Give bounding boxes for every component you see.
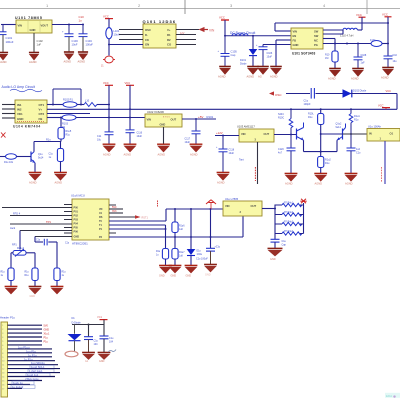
- svg-text:C1u: C1u: [65, 243, 70, 245]
- svg-text:GND: GND: [44, 329, 50, 332]
- svg-text:VIN: VIN: [147, 118, 152, 122]
- svg-text:TP1: TP1: [46, 220, 51, 224]
- wire mcu pinR3 reset: [109, 216, 135, 218]
- ground AGND QB: [29, 172, 42, 184]
- svg-text:L102 4.7uH: L102 4.7uH: [340, 34, 354, 38]
- svg-text:GND: GND: [171, 275, 177, 278]
- wire con pin16: [8, 383, 31, 385]
- ground AGND under C103: [64, 52, 75, 64]
- svg-text:VCC: VCC: [356, 13, 362, 17]
- diode column D1: [190, 209, 192, 249]
- svg-text:AGND: AGND: [55, 181, 63, 185]
- resistor RD1: [8, 268, 14, 281]
- svg-text:C1u 100uF: C1u 100uF: [196, 258, 208, 261]
- earth ground ellipse: [65, 351, 78, 357]
- inductor L103 zigzag: [84, 103, 97, 107]
- wire con pin12: [8, 368, 61, 370]
- resistor RN2: [275, 213, 304, 216]
- wire drop to trimmer: [19, 231, 21, 250]
- left pullup bus: [274, 205, 276, 240]
- svg-text:1N4u: 1N4u: [197, 254, 203, 256]
- wire to jack symbol: [108, 45, 110, 56]
- svg-text:AGND: AGND: [158, 153, 166, 157]
- right pullup bus: [303, 203, 305, 234]
- wire U101 pin5 sw: [323, 29, 343, 31]
- capacitor C105: [221, 36, 230, 66]
- ground stem of U101a: [33, 33, 35, 52]
- svg-text:15: 15: [2, 381, 4, 383]
- svg-text:+C1u: +C1u: [215, 247, 221, 249]
- wire U102 gnd: [163, 127, 165, 144]
- svg-text:GN: GN: [145, 43, 149, 47]
- svg-text:R1u: R1u: [325, 162, 330, 165]
- wire Q1 emitter: [303, 140, 305, 151]
- svg-text:10uF: 10uF: [267, 55, 273, 58]
- wire con pin15: [8, 380, 43, 382]
- svg-text:AGND: AGND: [0, 60, 7, 64]
- svg-text:AGND: AGND: [218, 75, 226, 79]
- resistor RD2: [32, 268, 38, 281]
- wire con pin4: [8, 336, 43, 338]
- svg-text:U103 AMS1117: U103 AMS1117: [237, 125, 255, 129]
- svg-text:R1u: R1u: [1, 272, 6, 274]
- ground AGND left edge: [0, 53, 8, 65]
- net label vertical red mcu: [157, 201, 159, 207]
- svg-text:R1u7: R1u7: [179, 252, 185, 254]
- svg-text:GND: GND: [186, 275, 192, 278]
- ground AGND RD3: [51, 286, 64, 294]
- wire con pin14: [8, 376, 56, 378]
- svg-text:AGND: AGND: [103, 153, 111, 157]
- wire con pin11: [8, 364, 59, 366]
- svg-text:OSC: OSC: [275, 93, 282, 97]
- ground AGND col2: [124, 144, 137, 156]
- svg-text:5: 5: [2, 341, 3, 343]
- svg-text:VIN: VIN: [209, 28, 215, 32]
- svg-text:2: 2: [2, 329, 3, 331]
- watermark: [385, 393, 400, 398]
- svg-text:AGND: AGND: [351, 77, 359, 81]
- wire trimmer left leg: [11, 252, 13, 254]
- svg-text:R1u 10k: R1u 10k: [4, 161, 14, 164]
- svg-text:GND: GND: [293, 43, 299, 47]
- transistor Q1: [297, 123, 304, 141]
- resistor RN1: [275, 203, 304, 206]
- svg-text:P06: P06: [74, 231, 79, 234]
- svg-text:7: 7: [2, 349, 3, 351]
- sheet border top line: [0, 8, 400, 10]
- svg-text:R?D 4: R?D 4: [13, 212, 21, 215]
- wire con pin8: [8, 352, 53, 354]
- wire mcu pinR1: [109, 208, 123, 210]
- resistor RA: [172, 222, 178, 233]
- ground AGND U102: [157, 144, 170, 156]
- svg-text:AGND: AGND: [190, 153, 198, 157]
- svg-text:AGND: AGND: [328, 77, 336, 81]
- wire cross couple: [321, 133, 343, 135]
- svg-text:AGND: AGND: [78, 60, 86, 64]
- cap column C122: [210, 209, 212, 248]
- wire drop pinL5: [34, 237, 36, 243]
- svg-text:1uF: 1uF: [361, 62, 366, 65]
- svg-text:FB: FB: [293, 39, 297, 43]
- wire mcu pinL5: [35, 236, 72, 238]
- svg-text:5V0: 5V0: [112, 206, 117, 209]
- svg-text:P01: P01: [74, 211, 79, 214]
- wire con pin2: [8, 328, 43, 330]
- capacitor C109: [384, 56, 393, 67]
- svg-text:10: 10: [2, 361, 4, 363]
- ground AGND under C108: [351, 69, 364, 81]
- svg-text:P1u: P1u: [44, 340, 49, 343]
- svg-text:12: 12: [2, 369, 4, 371]
- svg-text:U101 78M05: U101 78M05: [15, 16, 43, 20]
- svg-text:R1u: R1u: [62, 272, 67, 274]
- wire U103 gnd tab: [257, 142, 259, 184]
- wire Q2 emitter: [336, 140, 338, 151]
- svg-text:10uF: 10uF: [72, 43, 78, 47]
- svg-text:L101: L101: [114, 29, 120, 33]
- svg-text:13: 13: [2, 373, 4, 375]
- svg-text:O1: O1: [390, 132, 394, 136]
- svg-text:10uF: 10uF: [185, 141, 191, 144]
- fuse F101: [371, 41, 382, 47]
- svg-text:8 7 6 5: 8 7 6 5: [163, 117, 170, 119]
- node R101 top: [320, 108, 322, 110]
- diode D102: [343, 89, 352, 98]
- capacitor C120: [287, 135, 296, 174]
- svg-text:AGND: AGND: [345, 182, 353, 186]
- power jack J101: [103, 56, 115, 63]
- wire emitter join: [304, 151, 338, 153]
- svg-text:9u14: 9u14: [38, 157, 44, 160]
- IC U104 opamp: [15, 100, 47, 123]
- svg-text:104: 104: [109, 341, 114, 344]
- ground AGND RD2: [29, 286, 42, 298]
- power VCC col1: [103, 81, 113, 132]
- svg-text:VIN: VIN: [18, 24, 23, 28]
- svg-text:5V0: 5V0: [44, 325, 49, 328]
- svg-text:OUT: OUT: [264, 132, 270, 136]
- svg-text:SW: SW: [314, 30, 319, 34]
- wire Q101 pin6 right: [176, 34, 196, 36]
- svg-text:AGND: AGND: [29, 60, 37, 64]
- svg-text:10uH: 10uH: [114, 33, 120, 37]
- svg-text:VCC: VCC: [386, 89, 392, 93]
- wire U103 out to Q1: [274, 134, 297, 136]
- svg-text:GND: GND: [160, 123, 166, 127]
- resistor RD3: [54, 268, 60, 281]
- wire Q101 pin3 left: [119, 39, 143, 41]
- svg-text:V+: V+: [167, 28, 171, 32]
- svg-text:10u: 10u: [393, 60, 398, 63]
- svg-text:8: 8: [2, 353, 3, 355]
- wire U101 pin3 to gnd: [276, 39, 291, 41]
- diode D103: [187, 249, 196, 255]
- capacitor C116: [126, 130, 135, 144]
- svg-text:AGND: AGND: [64, 60, 72, 64]
- svg-text:SW: SW: [314, 34, 319, 38]
- svg-text:R1u: R1u: [25, 272, 30, 274]
- svg-text:AGND: AGND: [124, 153, 132, 157]
- svg-text:OT1: OT1: [39, 103, 45, 107]
- wire U101 pin7: [323, 38, 335, 40]
- svg-text:U1u6 MCU: U1u6 MCU: [71, 194, 85, 198]
- svg-text:100pF: 100pF: [304, 103, 312, 106]
- capacitor C126 series: [44, 239, 47, 246]
- svg-text:C10: C10: [393, 54, 398, 57]
- svg-text:3: 3: [2, 333, 3, 335]
- wire mcu pinL3: [10, 223, 72, 225]
- svg-text:R10C: R10C: [278, 117, 284, 120]
- node L101 out: [108, 44, 110, 46]
- resistor R101: [308, 109, 324, 151]
- svg-text:R1u: R1u: [25, 275, 30, 277]
- svg-text:GND: GND: [30, 295, 36, 298]
- wire input to U101a: [1, 24, 16, 26]
- svg-text:AGND: AGND: [285, 182, 293, 186]
- wire Q101 pin4 left: [109, 44, 143, 46]
- wire U102 out +5V: [182, 118, 216, 120]
- capacitor C123: [271, 239, 280, 248]
- wire main rail: [47, 108, 397, 110]
- IC U101 SGT3403: [291, 28, 323, 49]
- svg-text:3V3: 3V3: [112, 210, 117, 213]
- svg-text:DC Power Circuit: DC Power Circuit: [230, 31, 255, 35]
- svg-text:RS: RS: [99, 216, 103, 219]
- resistor R204 zigzag: [289, 109, 293, 134]
- resistor RN3: [275, 222, 304, 225]
- ground AGND C121: [345, 173, 358, 185]
- svg-text:EDA: EDA: [386, 394, 392, 398]
- svg-text:GND: GND: [159, 275, 165, 278]
- svg-text:D1u: D1u: [197, 251, 202, 253]
- svg-text:R1u: R1u: [46, 138, 51, 141]
- svg-text:Cap: Cap: [282, 244, 287, 247]
- connector P101: [1, 322, 8, 397]
- svg-text:Jack: Jack: [10, 227, 16, 230]
- deco squiggle: [108, 350, 116, 353]
- svg-text:R2: R2: [167, 38, 171, 42]
- divider column RA: [174, 209, 176, 222]
- resistor RB oval: [0, 156, 6, 158]
- power VCC above C105: [219, 16, 229, 36]
- capacitor C115: [105, 132, 114, 144]
- svg-text:C102: C102: [37, 39, 44, 43]
- svg-text:4: 4: [2, 337, 3, 339]
- ground GND RB2: [159, 265, 172, 277]
- capacitor C117: [192, 119, 201, 144]
- wire collector net: [34, 141, 61, 143]
- svg-text:9: 9: [2, 357, 3, 359]
- svg-text:AGND: AGND: [381, 76, 389, 80]
- wire bus to U107: [166, 208, 223, 210]
- svg-text:IN: IN: [369, 132, 372, 136]
- svg-text:R101: R101: [207, 115, 214, 119]
- red marker left edge: [1, 133, 6, 138]
- riser to bus: [165, 209, 167, 221]
- node bias col Q1: [290, 108, 292, 110]
- wire lower net: [35, 241, 43, 243]
- power VCC above L101: [103, 15, 113, 24]
- svg-text:GND: GND: [270, 258, 276, 261]
- wire con pin17: [8, 387, 23, 389]
- power VCC F: [97, 315, 108, 325]
- svg-text:OSC: OSC: [145, 28, 151, 32]
- ground AGND R106: [54, 172, 67, 184]
- wire Q2 base to U105: [343, 133, 368, 135]
- ground AGND under C106: [257, 67, 269, 79]
- wire U104 out1: [47, 104, 63, 106]
- capacitor C103: [65, 25, 74, 52]
- svg-text:100uF: 100uF: [6, 40, 14, 44]
- svg-text:V+: V+: [39, 108, 43, 112]
- svg-text:R1: R1: [167, 33, 171, 37]
- wire regulator output: [52, 24, 84, 26]
- svg-text:R1u: R1u: [308, 116, 313, 119]
- wire U101 pin4: [263, 44, 291, 46]
- wire col3 drop: [56, 242, 58, 268]
- svg-text:Audio LO Amp Circuit: Audio LO Amp Circuit: [2, 85, 35, 89]
- svg-text:OT2: OT2: [39, 112, 45, 116]
- wire mcu pinR6: [109, 228, 166, 230]
- capacitor C118 tant: [219, 136, 228, 173]
- svg-text:GND: GND: [99, 360, 105, 363]
- svg-text:AGND: AGND: [217, 181, 225, 185]
- ground GND D103: [185, 265, 198, 277]
- svg-text:IN1: IN1: [17, 103, 22, 107]
- capacitor C108: [354, 44, 363, 69]
- resistor R103 oval: [62, 115, 76, 120]
- inductor L1: [232, 34, 248, 36]
- svg-text:VIN: VIN: [241, 132, 246, 136]
- ground AGND under C105: [218, 67, 231, 79]
- svg-text:R1u: R1u: [354, 119, 359, 122]
- svg-text:U104 KM7404: U104 KM7404: [13, 125, 41, 129]
- svg-text:16: 16: [2, 384, 4, 386]
- svg-text:C108: C108: [361, 54, 367, 57]
- wire con pin5: [8, 340, 43, 342]
- wire U104 pin3 left: [2, 113, 15, 115]
- svg-text:D-Diode: D-Diode: [72, 321, 82, 324]
- svg-text:+12V: +12V: [216, 131, 223, 135]
- svg-text:VOUT: VOUT: [41, 24, 49, 28]
- wire con pin13: [8, 372, 61, 374]
- wire trimmer right leg: [26, 252, 35, 254]
- svg-text:104: 104: [94, 343, 99, 346]
- ground AGND under D101: [247, 67, 259, 79]
- wire con pin7: [8, 348, 53, 350]
- wire con pin3: [8, 332, 43, 334]
- resistor R102e: [318, 152, 332, 173]
- wire U107 out: [262, 208, 275, 210]
- ground AGND under regulator: [29, 53, 39, 65]
- wire Q101 pin5 right: [176, 29, 199, 31]
- svg-text:R1u: R1u: [66, 134, 71, 137]
- ground AGND C117: [190, 144, 203, 156]
- svg-text:P05: P05: [74, 227, 79, 230]
- power VCC right column: [382, 13, 392, 24]
- svg-text:P00: P00: [74, 207, 79, 210]
- wire U105 gnd: [384, 141, 386, 184]
- svg-text:X1u1: X1u1: [44, 333, 50, 336]
- svg-text:VD: VD: [99, 208, 103, 211]
- resistor RN4: [275, 232, 304, 235]
- feedback bridge wire: [53, 89, 81, 105]
- node fb top: [387, 22, 389, 24]
- capacitor C110 series: [311, 88, 314, 99]
- power flag pullup: [300, 199, 306, 204]
- riser U107 gnd pin: [242, 216, 244, 237]
- svg-text:P1u: P1u: [44, 336, 49, 339]
- svg-text:AGND: AGND: [247, 75, 255, 79]
- svg-text:VCC: VCC: [103, 81, 109, 85]
- svg-text:AG: AG: [258, 75, 262, 79]
- ground AGND emitter: [314, 173, 327, 185]
- svg-text:C103: C103: [72, 39, 79, 43]
- svg-text:GND: GND: [30, 28, 36, 32]
- transistor Q2: [337, 124, 346, 141]
- svg-text:RST1: RST1: [142, 217, 149, 220]
- svg-text:12V: 12V: [180, 32, 185, 35]
- ground GND C122: [204, 264, 217, 276]
- svg-text:VIN: VIN: [225, 204, 230, 208]
- svg-text:P02: P02: [74, 215, 79, 218]
- svg-text:C1u: C1u: [36, 240, 41, 242]
- inductor L101: [106, 23, 120, 45]
- ground AGND under C109: [381, 68, 394, 80]
- svg-text:VCC: VCC: [125, 81, 131, 85]
- wire mcu pinL1: [2, 207, 72, 209]
- ground AGND under C104: [78, 52, 89, 64]
- svg-text:Diode: Diode: [240, 63, 247, 66]
- svg-text:100uF: 100uF: [86, 43, 94, 47]
- svg-text:VCC: VCC: [382, 13, 388, 17]
- svg-text:Tant: Tant: [239, 159, 244, 162]
- svg-text:R? R4u4: R? R4u4: [284, 231, 294, 233]
- svg-text:VCC: VCC: [103, 15, 109, 19]
- svg-text:10u: 10u: [97, 139, 102, 142]
- svg-text:FB: FB: [39, 117, 43, 121]
- ground AGND C118: [217, 172, 230, 184]
- capacitor C121: [347, 134, 356, 173]
- diode D104: [74, 325, 76, 334]
- ground GND C124: [82, 352, 95, 362]
- ground AGND RD1: [5, 286, 18, 294]
- svg-text:R1u6: R1u6: [179, 226, 185, 228]
- wire mcu pinL4: [20, 230, 72, 232]
- svg-text:OUT: OUT: [251, 204, 257, 208]
- svg-text:+5V: +5V: [198, 115, 203, 119]
- svg-text:R? R4u1: R? R4u1: [284, 202, 294, 204]
- svg-text:17: 17: [2, 388, 4, 390]
- diode D101: [240, 36, 257, 66]
- wire con pin10: [8, 360, 56, 362]
- wire mcu pinR5: [109, 224, 166, 226]
- svg-text:CK: CK: [145, 38, 149, 42]
- ground GND RC: [169, 265, 182, 277]
- wire con pin6: [8, 344, 43, 346]
- capacitor C104: [79, 25, 88, 52]
- svg-text:AGND: AGND: [29, 181, 37, 185]
- resistor R104: [325, 44, 338, 69]
- svg-text:1uF: 1uF: [37, 43, 42, 47]
- svg-text:1: 1: [2, 325, 3, 327]
- wire osc: [286, 93, 310, 95]
- svg-text:P03: P03: [74, 219, 79, 222]
- svg-text:1M: 1M: [325, 57, 328, 60]
- svg-text:10uF: 10uF: [229, 152, 235, 155]
